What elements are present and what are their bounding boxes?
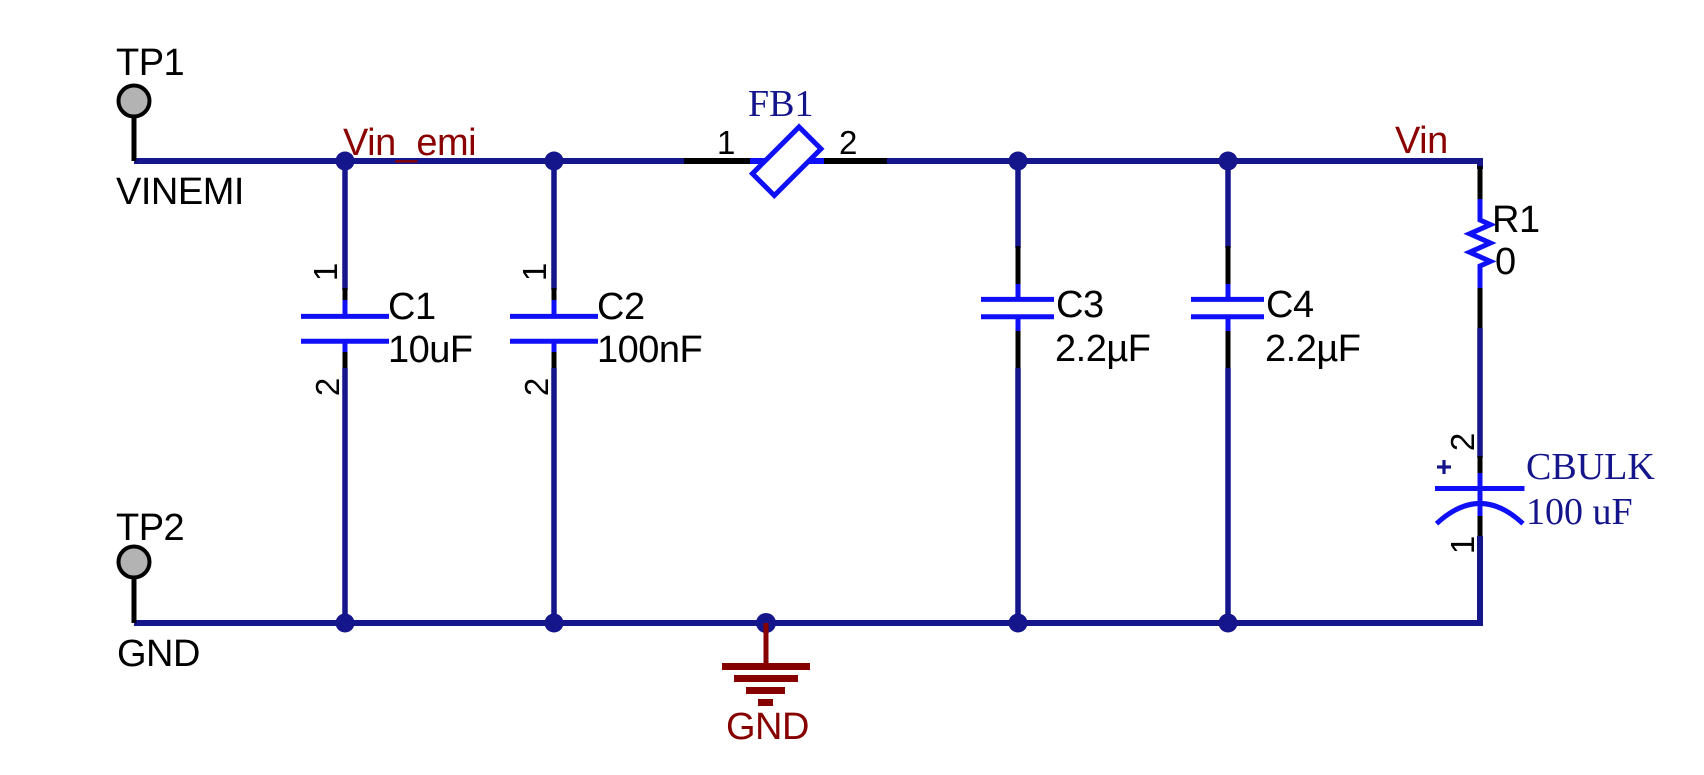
svg-text:C1: C1: [388, 286, 436, 328]
capacitor C1 pin 1 (black): [343, 288, 348, 302]
svg-text:TP1: TP1: [116, 42, 184, 84]
capacitor C3 lead stub top: [1016, 284, 1021, 298]
ground symbol bar 3: [746, 687, 785, 694]
capacitor C1 lead stub top: [343, 300, 348, 316]
FB1 pin 1 wire (black): [684, 158, 753, 164]
svg-text:TP2: TP2: [116, 507, 184, 549]
test point TP1 pin stem: [132, 112, 137, 161]
FB1 lead stub right: [804, 158, 824, 164]
svg-text:Vin_emi: Vin_emi: [343, 122, 476, 164]
svg-text:0: 0: [1495, 241, 1516, 283]
svg-text:VINEMI: VINEMI: [116, 171, 244, 213]
wire C2 top: [551, 161, 557, 290]
svg-text:GND: GND: [726, 706, 809, 748]
svg-text:1: 1: [717, 124, 735, 161]
capacitor C1 plate bottom: [301, 339, 389, 344]
wire C4 top: [1225, 161, 1231, 248]
capacitor CBULK plate top (straight): [1435, 486, 1525, 491]
node junction top C2: [545, 152, 564, 171]
svg-text:1: 1: [307, 263, 344, 281]
capacitor C3 plate top: [981, 297, 1054, 302]
svg-text:2: 2: [1444, 433, 1481, 451]
capacitor C4 plate top: [1191, 297, 1264, 302]
FB1 lead stub left: [750, 158, 772, 164]
svg-text:GND: GND: [117, 633, 200, 675]
test point TP1 pad: [119, 86, 150, 117]
svg-text:CBULK: CBULK: [1526, 446, 1655, 488]
node junction bottom C2: [545, 614, 564, 633]
capacitor C3 lead stub bottom: [1016, 318, 1021, 332]
resistor R1 pin 1 (black): [1478, 166, 1483, 201]
node junction bottom GND: [756, 613, 776, 633]
node junction top C4: [1219, 152, 1238, 171]
wire top rail left (VINEMI net): [134, 158, 687, 164]
capacitor CBULK pin 2 (black): [1478, 456, 1483, 475]
capacitor C1 plate top: [301, 314, 389, 319]
wire right branch top corner: [1477, 161, 1480, 169]
ground symbol bar 2: [734, 675, 798, 682]
test point TP2 pad: [119, 547, 150, 578]
svg-text:2.2µF: 2.2µF: [1265, 328, 1360, 370]
svg-text:2: 2: [518, 378, 555, 396]
ground symbol bar 4: [758, 699, 773, 706]
wire C3 top: [1015, 161, 1021, 248]
capacitor C2 plate bottom: [510, 339, 598, 344]
ground symbol bar 1: [722, 663, 810, 670]
test point TP2 pin stem: [132, 573, 137, 623]
resistor R1 body zigzag: [1470, 199, 1491, 289]
capacitor C3 pin 2 (black): [1016, 331, 1021, 370]
capacitor C2 lead stub bottom: [552, 342, 557, 353]
node junction bottom C4: [1219, 614, 1238, 633]
wire bottom rail (GND net): [134, 620, 1480, 626]
ferrite bead FB1 body: [752, 127, 821, 196]
node junction top C1: [336, 152, 355, 171]
capacitor CBULK pin 1 (black): [1478, 516, 1483, 538]
capacitor C2 pin 2 (black): [552, 352, 557, 369]
FB1 pin 2 wire (black): [821, 158, 890, 164]
capacitor C4 plate bottom: [1191, 314, 1264, 319]
wire C4 bottom: [1225, 368, 1231, 623]
svg-text:100 uF: 100 uF: [1526, 491, 1633, 533]
wire C1 bottom: [342, 368, 348, 623]
svg-text:C2: C2: [597, 286, 645, 328]
ground symbol stem: [764, 623, 769, 666]
svg-text:2.2µF: 2.2µF: [1055, 328, 1150, 370]
svg-text:1: 1: [1444, 536, 1481, 554]
svg-text:C4: C4: [1266, 284, 1314, 326]
capacitor C3 plate bottom: [981, 314, 1054, 319]
capacitor CBULK lead stub through arc: [1478, 488, 1483, 517]
capacitor C2 lead stub top: [552, 300, 557, 316]
capacitor C1 pin 2 (black): [343, 352, 348, 369]
wire C3 bottom: [1015, 368, 1021, 623]
svg-text:10uF: 10uF: [388, 329, 473, 371]
capacitor C2 plate top: [510, 314, 598, 319]
node junction bottom C3: [1009, 614, 1028, 633]
capacitor CBULK plate bottom (curved): [1437, 504, 1524, 524]
resistor R1 pin 2 (black): [1478, 288, 1483, 330]
capacitor C4 lead stub bottom: [1226, 318, 1231, 332]
wire C1 top: [342, 161, 348, 290]
wire top rail right (Vin net): [887, 158, 1480, 164]
capacitor C2 pin 1 (black): [552, 288, 557, 302]
wire CBULK to bottom rail: [1477, 536, 1480, 623]
wire C2 bottom: [551, 368, 557, 623]
svg-text:2: 2: [309, 378, 346, 396]
svg-text:R1: R1: [1492, 199, 1540, 241]
capacitor C4 pin 2 (black): [1226, 331, 1231, 370]
svg-text:Vin: Vin: [1395, 120, 1448, 162]
svg-text:100nF: 100nF: [597, 329, 702, 371]
wire R1 to CBULK: [1477, 328, 1483, 458]
CBULK polarity plus sign: [1437, 460, 1451, 474]
svg-text:1: 1: [516, 263, 553, 281]
capacitor C3 pin 1 (black): [1016, 246, 1021, 286]
capacitor C4 lead stub top: [1226, 284, 1231, 298]
node junction top C3: [1009, 152, 1028, 171]
svg-text:FB1: FB1: [748, 83, 813, 125]
svg-text:2: 2: [839, 124, 857, 161]
capacitor C4 pin 1 (black): [1226, 246, 1231, 286]
node junction bottom C1: [336, 614, 355, 633]
capacitor CBULK lead stub top: [1478, 473, 1483, 488]
capacitor C1 lead stub bottom: [343, 342, 348, 353]
svg-text:C3: C3: [1056, 284, 1104, 326]
